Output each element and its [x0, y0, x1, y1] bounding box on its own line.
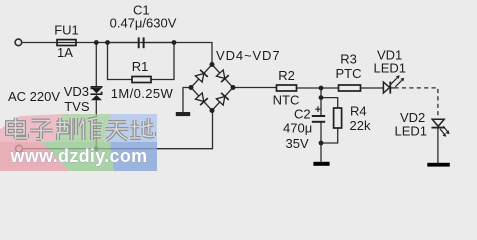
svg-text:1M/0.25W: 1M/0.25W — [111, 86, 174, 101]
wire R3 to VD1 — [361, 87, 384, 89]
svg-text:0.47μ/630V: 0.47μ/630V — [110, 16, 177, 31]
wire node A down to C2 — [320, 88, 322, 115]
svg-text:R4: R4 — [350, 103, 367, 118]
char tian — [106, 122, 129, 140]
svg-text:VD3: VD3 — [64, 84, 89, 99]
ground (VD2) — [427, 163, 450, 167]
svg-text:LED1: LED1 — [374, 61, 407, 76]
fuse FU1 — [57, 40, 76, 46]
stripe blue upper — [104, 114, 157, 142]
node A C2 tap — [319, 86, 324, 91]
wire VD3 branch upper — [95, 43, 97, 87]
char zi — [30, 121, 53, 140]
node bridge left — [189, 85, 194, 90]
wire VD3 branch lower — [95, 100, 97, 149]
wire VD1 cathode stub — [391, 87, 395, 89]
stripe pink lower — [0, 142, 69, 171]
char zuo — [80, 118, 102, 140]
capacitor C2 polarized — [312, 106, 325, 122]
stripe blue lower — [110, 142, 157, 171]
node bridge right — [231, 85, 236, 90]
wire top rail: fuse to C1 left node and corner down to bridge top — [76, 43, 212, 65]
wire dashed VD1 to VD2 — [395, 88, 438, 119]
svg-text:470μ: 470μ — [283, 121, 312, 136]
char zuo — [80, 118, 102, 140]
resistor R1 — [132, 77, 151, 83]
wire C1 right lead — [145, 42, 174, 44]
wire top rail: terminal to fuse — [22, 42, 57, 44]
watermark chinese characters (stylized strokes) — [7, 118, 154, 141]
node VD3 top — [94, 40, 99, 45]
diode VD (top-left, pointing to top vertex) — [195, 70, 208, 83]
svg-text:AC 220V: AC 220V — [8, 89, 60, 104]
wire bridge right vertex to R2 — [233, 87, 277, 89]
wire bridge left vertex to ground — [183, 88, 191, 113]
resistor R4 — [334, 108, 342, 128]
node B C2/R4 bottom — [319, 141, 324, 146]
wire R4 bottom to node B — [321, 128, 338, 143]
resistor R2 — [277, 85, 297, 91]
TVS VD3 bidirectional — [91, 86, 103, 100]
svg-text:22k: 22k — [350, 118, 371, 133]
svg-text:TVS: TVS — [64, 99, 90, 114]
char zhi — [56, 118, 76, 140]
svg-text:C2: C2 — [294, 107, 311, 122]
svg-text:VD4~VD7: VD4~VD7 — [216, 48, 280, 63]
svg-text:LED1: LED1 — [395, 124, 428, 139]
diode VD (bottom-right, pointing to right vertex) — [216, 93, 229, 106]
diode VD (top-right, pointing to right vertex) — [216, 70, 229, 83]
wire R2 to node A — [297, 87, 339, 89]
node bridge bottom — [210, 108, 215, 113]
stripe pink upper — [0, 114, 63, 142]
capacitor C1 — [138, 37, 145, 48]
wire C1 left lead — [108, 42, 138, 44]
node bridge top — [210, 62, 215, 67]
svg-text:FU1: FU1 — [54, 22, 79, 37]
svg-text:www.dzdiy.com: www.dzdiy.com — [10, 146, 148, 166]
bridge rectifier VD4~VD7 — [191, 65, 233, 111]
char zhi — [56, 118, 76, 140]
resistor R3 — [339, 85, 361, 91]
ground (bridge negative) — [176, 112, 190, 116]
LED VD1 — [383, 75, 404, 93]
svg-text:R3: R3 — [340, 51, 357, 66]
stripe green lower — [41, 142, 114, 171]
wire R1 branch right riser — [151, 43, 174, 80]
svg-text:1A: 1A — [57, 45, 73, 60]
node dots — [94, 40, 324, 151]
node C1/R1 left — [105, 40, 110, 45]
svg-text:NTC: NTC — [273, 92, 300, 107]
char zi — [30, 121, 53, 140]
char dian — [7, 118, 27, 139]
terminal input top — [15, 39, 22, 46]
wire VD2 cathode to ground — [437, 128, 439, 163]
wire C2 bottom to node B to ground — [320, 123, 322, 162]
char dian — [7, 118, 27, 139]
node VD3 bottom — [94, 146, 99, 151]
watermark url — [10, 146, 148, 166]
watermark logo dzdiy — [0, 114, 157, 171]
char di — [130, 118, 154, 138]
terminal input bottom — [16, 145, 23, 152]
stripe green upper — [54, 114, 111, 142]
node A2 R4 tap — [319, 95, 324, 100]
svg-text:35V: 35V — [286, 136, 309, 151]
diode VD (bottom-left, pointing to bottom vertex) — [195, 93, 208, 106]
wire bottom rail to bridge bottom vertex — [23, 111, 213, 149]
char di — [130, 118, 154, 138]
svg-text:PTC: PTC — [336, 66, 362, 81]
LED VD2 — [432, 119, 450, 137]
node C1/R1 right — [172, 40, 177, 45]
wire node A2 to R4 top — [321, 98, 338, 108]
ground (C2/R4) — [313, 162, 329, 166]
svg-text:R1: R1 — [132, 59, 149, 74]
char tian — [106, 122, 129, 140]
bridge frame wires — [191, 65, 233, 111]
wire R1 branch left/bottom — [108, 43, 133, 80]
svg-text:R2: R2 — [278, 68, 295, 83]
